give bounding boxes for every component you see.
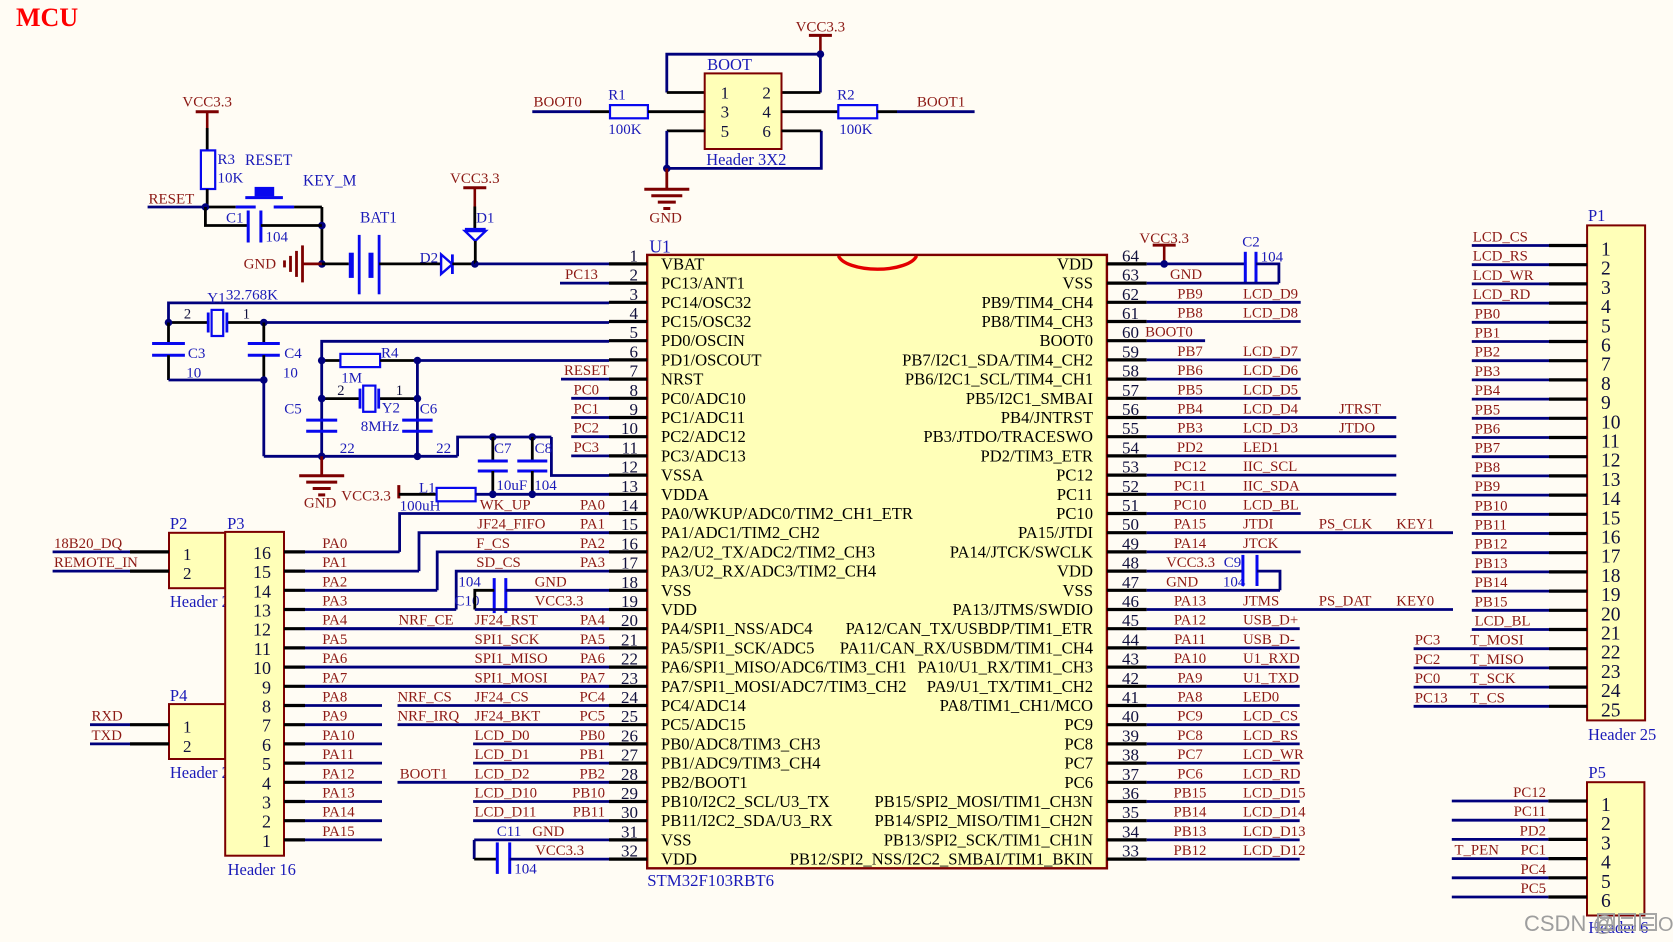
svg-text:PA8: PA8: [1178, 690, 1203, 706]
U1 right pin stubs numbers and names: [1107, 262, 1147, 265]
svg-text:GND: GND: [532, 824, 564, 840]
net SD_CS PA3 (pin17) with riser: [456, 571, 609, 609]
svg-text:VCC3.3: VCC3.3: [1166, 555, 1215, 571]
svg-text:PC12: PC12: [1174, 459, 1207, 475]
svg-text:PD2/TIM3_ETR: PD2/TIM3_ETR: [981, 446, 1094, 465]
svg-text:PC3: PC3: [1415, 633, 1441, 649]
wire BOOT vcc to pins 1 2: [667, 54, 821, 92]
svg-text:104: 104: [514, 862, 537, 878]
svg-text:R2: R2: [837, 88, 855, 104]
P5 pin 1 wire: [1452, 800, 1549, 803]
svg-text:PA12: PA12: [1174, 613, 1206, 629]
svg-text:PA11: PA11: [322, 747, 354, 763]
svg-text:PA10: PA10: [322, 728, 354, 744]
svg-text:PC14/OSC32: PC14/OSC32: [661, 293, 751, 312]
svg-text:2: 2: [1601, 259, 1611, 280]
svg-text:19: 19: [1601, 585, 1621, 606]
svg-text:SPI1_MOSI: SPI1_MOSI: [475, 670, 548, 686]
svg-text:GND: GND: [1166, 574, 1198, 590]
net BOOT1: [897, 110, 975, 113]
svg-text:PC5: PC5: [1521, 881, 1547, 897]
wire U1 pin22 row: [305, 666, 609, 669]
svg-text:C7: C7: [494, 441, 512, 457]
wire pin58 row right: [1147, 378, 1301, 381]
resistor R3: [201, 150, 215, 189]
svg-text:2: 2: [762, 84, 771, 103]
svg-text:Header 25: Header 25: [1588, 725, 1656, 744]
wire crystal bottom rail: [264, 455, 458, 458]
svg-text:PC4/ADC14: PC4/ADC14: [661, 696, 747, 715]
svg-text:LCD_D6: LCD_D6: [1243, 363, 1298, 379]
svg-text:10uF: 10uF: [496, 478, 527, 494]
svg-text:PD1/OSCOUT: PD1/OSCOUT: [661, 350, 762, 369]
svg-text:40: 40: [1122, 707, 1139, 726]
svg-text:RESET: RESET: [245, 152, 293, 169]
wire U1 pin21 row: [305, 647, 609, 650]
svg-text:PC2: PC2: [574, 421, 600, 437]
header P2 box: [169, 533, 225, 588]
svg-text:53: 53: [1122, 458, 1139, 477]
svg-text:PA0: PA0: [580, 498, 605, 514]
svg-text:LCD_D0: LCD_D0: [475, 728, 530, 744]
wire U1 pin29 row: [473, 800, 609, 803]
svg-text:PS_CLK: PS_CLK: [1319, 517, 1373, 533]
svg-text:PB8/TIM4_CH3: PB8/TIM4_CH3: [981, 312, 1093, 331]
svg-text:LCD_RS: LCD_RS: [1243, 728, 1298, 744]
svg-text:12: 12: [621, 458, 638, 477]
svg-text:PA8: PA8: [322, 690, 347, 706]
svg-text:5: 5: [721, 122, 730, 141]
svg-text:6: 6: [1601, 891, 1611, 912]
svg-text:10: 10: [283, 366, 298, 382]
svg-text:P2: P2: [170, 514, 187, 533]
svg-text:P3: P3: [227, 514, 244, 533]
IC notch arc: [839, 256, 917, 269]
svg-text:VCC3.3: VCC3.3: [535, 843, 584, 859]
svg-text:1: 1: [183, 545, 192, 564]
P1 pin 1 wire: [1472, 244, 1549, 247]
P1 pin 5 wire: [1472, 321, 1549, 324]
svg-text:24: 24: [621, 688, 639, 707]
svg-text:43: 43: [1122, 650, 1139, 669]
svg-text:LED0: LED0: [1243, 690, 1279, 706]
svg-text:VDD: VDD: [1057, 254, 1093, 273]
svg-text:27: 27: [621, 746, 639, 765]
svg-text:PA5: PA5: [322, 632, 347, 648]
svg-text:PC13/ANT1: PC13/ANT1: [661, 274, 745, 293]
net JF24_FIFO PA1 (pin15) with riser: [419, 533, 609, 571]
svg-text:SPI1_MISO: SPI1_MISO: [475, 651, 548, 667]
svg-text:PB9: PB9: [1177, 286, 1203, 302]
svg-text:JTDO: JTDO: [1339, 421, 1375, 437]
svg-text:1: 1: [630, 246, 639, 265]
svg-text:21: 21: [621, 630, 638, 649]
svg-text:PA6: PA6: [322, 651, 347, 667]
svg-text:11: 11: [1601, 432, 1620, 453]
svg-text:PB11/I2C2_SDA/U3_RX: PB11/I2C2_SDA/U3_RX: [661, 811, 833, 830]
svg-text:C8: C8: [535, 441, 553, 457]
power VCC3.3 (R3 top): [196, 110, 219, 113]
svg-text:23: 23: [1601, 662, 1621, 683]
wire pin56 row right: [1147, 416, 1397, 419]
net PC3 (pin11): [571, 454, 609, 457]
svg-text:PC1/ADC11: PC1/ADC11: [661, 408, 745, 427]
svg-text:10: 10: [621, 419, 638, 438]
svg-text:PB0: PB0: [580, 728, 606, 744]
svg-text:55: 55: [1122, 419, 1139, 438]
svg-text:PA15: PA15: [1174, 517, 1206, 533]
svg-text:C5: C5: [284, 402, 302, 418]
svg-text:9: 9: [1601, 393, 1611, 414]
wire pin34 row right: [1147, 839, 1300, 842]
svg-text:F_CS: F_CS: [476, 536, 510, 552]
svg-text:PC10: PC10: [1056, 504, 1093, 523]
svg-text:1: 1: [1601, 795, 1611, 816]
svg-text:PC0/ADC10: PC0/ADC10: [661, 389, 746, 408]
svg-text:PC15/OSC32: PC15/OSC32: [661, 312, 751, 331]
svg-text:22: 22: [436, 441, 451, 457]
svg-text:37: 37: [1122, 765, 1140, 784]
svg-text:1: 1: [262, 831, 271, 851]
svg-text:14: 14: [253, 581, 271, 601]
wire pin45 row right: [1147, 627, 1300, 630]
svg-text:JTDI: JTDI: [1243, 517, 1273, 533]
P1 pin 24 wire: [1414, 686, 1549, 689]
svg-text:PA6: PA6: [580, 651, 605, 667]
P1 pin 21 wire: [1472, 628, 1549, 631]
svg-text:BOOT1: BOOT1: [400, 766, 448, 782]
ground below crystals: [320, 456, 323, 475]
P1 pin 11 wire: [1472, 436, 1549, 439]
svg-text:PB12: PB12: [1174, 843, 1207, 859]
svg-text:JF24_CS: JF24_CS: [475, 690, 529, 706]
svg-text:PB15/SPI2_MOSI/TIM1_CH3N: PB15/SPI2_MOSI/TIM1_CH3N: [874, 792, 1093, 811]
svg-text:1: 1: [183, 718, 192, 737]
svg-text:8: 8: [630, 381, 639, 400]
svg-text:GND: GND: [649, 211, 682, 227]
svg-text:46: 46: [1122, 592, 1139, 611]
svg-text:VSS: VSS: [661, 830, 691, 849]
svg-text:7: 7: [630, 362, 639, 381]
power VCC3.3 (pin64): [1153, 244, 1176, 247]
svg-text:PC6: PC6: [1064, 773, 1093, 792]
wire U1 pin5 (PD0/OSCIN): [322, 341, 609, 456]
svg-text:3: 3: [1601, 833, 1611, 854]
svg-text:42: 42: [1122, 669, 1139, 688]
svg-text:5: 5: [630, 323, 639, 342]
svg-text:O: O: [1658, 914, 1673, 936]
svg-text:8MHz: 8MHz: [361, 419, 400, 435]
svg-text:PB13: PB13: [1174, 824, 1207, 840]
svg-text:PB0: PB0: [1475, 306, 1501, 322]
svg-text:VCC3.3: VCC3.3: [341, 489, 391, 505]
svg-text:30: 30: [621, 803, 638, 822]
wire pin59 row right: [1147, 358, 1301, 361]
svg-text:PC8: PC8: [1064, 734, 1093, 753]
wire U1 pin25 row: [398, 723, 610, 726]
svg-text:LED1: LED1: [1243, 440, 1279, 456]
svg-text:32: 32: [621, 842, 638, 861]
svg-text:C2: C2: [1242, 235, 1260, 251]
svg-text:Header 2: Header 2: [170, 763, 230, 782]
svg-text:LCD_D1: LCD_D1: [475, 747, 530, 763]
power VCC3.3 (D1 top): [463, 186, 486, 189]
svg-text:LCD_D15: LCD_D15: [1243, 786, 1305, 802]
P5 pin 3 wire: [1452, 838, 1549, 841]
svg-text:PA0: PA0: [322, 536, 347, 552]
capacitor C1: [205, 207, 248, 226]
net TXD: [90, 743, 130, 746]
header P4 box: [169, 704, 225, 759]
svg-text:54: 54: [1122, 438, 1140, 457]
svg-text:C11: C11: [497, 824, 521, 840]
svg-text:BOOT1: BOOT1: [917, 95, 965, 111]
svg-text:2: 2: [630, 266, 639, 285]
svg-text:PB2/BOOT1: PB2/BOOT1: [661, 773, 748, 792]
svg-text:48: 48: [1122, 554, 1139, 573]
svg-text:PB1: PB1: [1475, 326, 1501, 342]
P1 pin 23 wire: [1414, 667, 1549, 670]
svg-text:5: 5: [262, 754, 271, 774]
svg-text:3: 3: [630, 285, 639, 304]
svg-text:PC4: PC4: [580, 690, 606, 706]
svg-text:PB5: PB5: [1475, 402, 1501, 418]
svg-text:JF24_BKT: JF24_BKT: [475, 709, 541, 725]
svg-text:16: 16: [621, 534, 638, 553]
svg-text:PA8/TIM1_CH1/MCO: PA8/TIM1_CH1/MCO: [940, 696, 1093, 715]
svg-text:3: 3: [1601, 278, 1611, 299]
svg-text:4: 4: [762, 103, 771, 122]
svg-text:PA4: PA4: [322, 613, 348, 629]
wire BOOT pins 5 6 to ground: [667, 129, 705, 132]
svg-text:Y1: Y1: [207, 291, 225, 307]
svg-text:PC4: PC4: [1521, 862, 1547, 878]
wire U1 pin3 (PC14/OSC32): [169, 303, 610, 323]
svg-text:T_MISO: T_MISO: [1470, 652, 1524, 668]
svg-text:RXD: RXD: [92, 709, 124, 725]
svg-text:51: 51: [1122, 496, 1139, 515]
svg-text:PC5: PC5: [580, 709, 606, 725]
P1 pin 4 wire: [1472, 302, 1549, 305]
svg-text:LCD_CS: LCD_CS: [1243, 709, 1298, 725]
svg-text:PB8: PB8: [1177, 306, 1203, 322]
svg-text:22: 22: [621, 650, 638, 669]
svg-text:U1_RXD: U1_RXD: [1243, 651, 1300, 667]
svg-text:57: 57: [1122, 381, 1140, 400]
svg-text:TXD: TXD: [92, 728, 123, 744]
svg-text:VCC3.3: VCC3.3: [182, 95, 232, 111]
svg-text:VDD: VDD: [661, 600, 697, 619]
svg-text:PB12: PB12: [1475, 537, 1508, 553]
svg-text:45: 45: [1122, 611, 1139, 630]
svg-text:PB4/JNTRST: PB4/JNTRST: [1001, 408, 1093, 427]
svg-text:29: 29: [621, 784, 638, 803]
svg-text:JF24_RST: JF24_RST: [475, 613, 538, 629]
svg-text:LCD_BL: LCD_BL: [1475, 614, 1531, 630]
wire pin39 row right: [1147, 743, 1300, 746]
wire pin49 row right: [1147, 551, 1301, 554]
svg-text:PB2: PB2: [1475, 345, 1501, 361]
svg-text:PB1/ADC9/TIM3_CH4: PB1/ADC9/TIM3_CH4: [661, 754, 821, 773]
svg-text:64: 64: [1122, 246, 1140, 265]
net 18B20_DQ: [53, 551, 130, 554]
P1 pin 15 wire: [1472, 513, 1549, 516]
svg-text:49: 49: [1122, 534, 1139, 553]
svg-text:P1: P1: [1588, 206, 1605, 225]
wire U1 pin24 row: [398, 704, 610, 707]
svg-text:59: 59: [1122, 342, 1139, 361]
svg-text:PB14: PB14: [1475, 575, 1508, 591]
svg-text:PB14: PB14: [1174, 805, 1207, 821]
svg-text:PA9/U1_TX/TIM1_CH2: PA9/U1_TX/TIM1_CH2: [927, 677, 1093, 696]
wire U1 pin31 VSS: [474, 839, 609, 842]
svg-text:T_PEN: T_PEN: [1455, 843, 1500, 859]
wire pin33 row right: [1147, 858, 1300, 861]
svg-text:13: 13: [253, 601, 271, 621]
svg-text:22: 22: [340, 441, 355, 457]
net PC2 (pin10): [571, 435, 609, 438]
svg-text:LCD_CS: LCD_CS: [1473, 230, 1528, 246]
wire pin46 row right: [1147, 608, 1453, 611]
svg-text:4: 4: [1601, 853, 1611, 874]
svg-text:IIC_SDA: IIC_SDA: [1243, 478, 1300, 494]
svg-text:T_MOSI: T_MOSI: [1470, 633, 1524, 649]
svg-text:1: 1: [243, 307, 250, 323]
svg-text:PB6: PB6: [1475, 422, 1501, 438]
svg-text:PB1: PB1: [580, 747, 606, 763]
svg-text:PB3/JTDO/TRACESWO: PB3/JTDO/TRACESWO: [923, 427, 1093, 446]
svg-text:BOOT0: BOOT0: [1040, 331, 1093, 350]
net REMOTE_IN: [53, 570, 130, 573]
svg-text:LCD_D11: LCD_D11: [475, 805, 537, 821]
svg-text:VSS: VSS: [1063, 274, 1093, 293]
svg-text:C3: C3: [188, 346, 206, 362]
svg-text:LCD_RD: LCD_RD: [1243, 766, 1301, 782]
U1 left pin stubs numbers and names: [609, 262, 647, 265]
svg-text:JTRST: JTRST: [1339, 402, 1381, 418]
svg-text:PC2/ADC12: PC2/ADC12: [661, 427, 746, 446]
net RXD: [90, 723, 130, 726]
svg-text:VSSA: VSSA: [661, 466, 703, 485]
svg-text:WK_UP: WK_UP: [480, 498, 531, 514]
P5 pin 5 wire: [1452, 876, 1549, 879]
wire pin50 row right: [1147, 531, 1453, 534]
svg-text:KEY1: KEY1: [1396, 517, 1434, 533]
svg-text:11: 11: [254, 639, 271, 659]
svg-text:47: 47: [1122, 573, 1140, 592]
svg-text:10: 10: [1601, 412, 1621, 433]
P1 pin 14 wire: [1472, 494, 1549, 497]
svg-text:26: 26: [621, 726, 638, 745]
svg-text:LCD_D9: LCD_D9: [1243, 286, 1298, 302]
svg-text:PC5/ADC15: PC5/ADC15: [661, 715, 746, 734]
wire U1 pin18 VSS: [506, 589, 609, 592]
net PC0 (pin8): [571, 397, 609, 400]
svg-text:PA12/CAN_TX/USBDP/TIM1_ETR: PA12/CAN_TX/USBDP/TIM1_ETR: [846, 619, 1094, 638]
svg-text:C6: C6: [420, 402, 438, 418]
svg-text:PC7: PC7: [1064, 754, 1093, 773]
wire rail to C7 C8 and U1 pin12 VSSA: [458, 437, 552, 456]
svg-text:NRF_IRQ: NRF_IRQ: [398, 709, 460, 725]
svg-text:BOOT: BOOT: [707, 55, 752, 74]
P1 pin 2 wire: [1472, 263, 1549, 266]
svg-text:60: 60: [1122, 323, 1139, 342]
svg-text:2: 2: [337, 383, 344, 399]
svg-text:16: 16: [1601, 528, 1621, 549]
P5 pin 4 wire: [1452, 857, 1549, 860]
P1 pin 3 wire: [1472, 282, 1549, 285]
svg-text:PA2/U2_TX/ADC2/TIM2_CH3: PA2/U2_TX/ADC2/TIM2_CH3: [661, 542, 875, 561]
wire pin55 row right: [1147, 435, 1397, 438]
svg-text:6: 6: [262, 735, 271, 755]
ground (BOOT): [665, 168, 668, 189]
svg-text:5: 5: [1601, 872, 1611, 893]
P1 pin 25 wire: [1414, 705, 1549, 708]
svg-text:PA6/SPI1_MISO/ADC6/TIM3_CH1: PA6/SPI1_MISO/ADC6/TIM3_CH1: [661, 658, 907, 677]
svg-text:D1: D1: [476, 211, 494, 227]
capacitor C3: [167, 323, 170, 344]
svg-text:100K: 100K: [608, 122, 642, 138]
svg-text:PB11: PB11: [573, 805, 605, 821]
svg-text:VBAT: VBAT: [661, 254, 704, 273]
svg-text:15: 15: [1601, 508, 1621, 529]
svg-text:R3: R3: [218, 152, 236, 168]
svg-text:LCD_RD: LCD_RD: [1473, 287, 1531, 303]
svg-text:8: 8: [262, 697, 271, 717]
svg-text:GND: GND: [244, 257, 277, 273]
wire U1 pin13 VDDA: [476, 493, 609, 496]
svg-text:SPI1_SCK: SPI1_SCK: [475, 632, 540, 648]
svg-text:2: 2: [183, 737, 192, 756]
net WK_UP PA0 (pin14) with riser: [400, 514, 609, 552]
svg-text:RESET: RESET: [564, 363, 609, 379]
wire pin54 row right: [1147, 454, 1397, 457]
svg-text:C9: C9: [1224, 555, 1242, 571]
svg-text:18: 18: [621, 573, 638, 592]
svg-text:61: 61: [1122, 304, 1139, 323]
P1 pin 8 wire: [1472, 378, 1549, 381]
svg-text:3: 3: [721, 103, 730, 122]
P1 pin 7 wire: [1472, 359, 1549, 362]
svg-text:28: 28: [621, 765, 638, 784]
svg-text:KEY_M: KEY_M: [303, 173, 357, 190]
svg-text:11: 11: [622, 438, 638, 457]
svg-text:24: 24: [1601, 681, 1621, 702]
wire U1 pin4 (PC15/OSC32): [264, 321, 609, 324]
svg-text:50: 50: [1122, 515, 1139, 534]
svg-text:14: 14: [1601, 489, 1621, 510]
svg-text:PB3: PB3: [1475, 364, 1501, 380]
svg-text:R1: R1: [608, 88, 626, 104]
svg-text:PA7/SPI1_MOSI/ADC7/TIM3_CH2: PA7/SPI1_MOSI/ADC7/TIM3_CH2: [661, 677, 907, 696]
svg-text:PC1: PC1: [574, 402, 600, 418]
svg-text:LCD_BL: LCD_BL: [1243, 498, 1299, 514]
P5 pin 2 wire: [1452, 819, 1549, 822]
svg-text:16: 16: [253, 543, 271, 563]
svg-text:PD2: PD2: [1177, 440, 1203, 456]
wire U1 pin20 row: [305, 627, 609, 630]
svg-text:23: 23: [621, 669, 638, 688]
svg-text:PC13: PC13: [565, 267, 598, 283]
net RESET (pin7): [561, 378, 609, 381]
svg-text:2: 2: [184, 307, 191, 323]
wire U1 pin26 row: [473, 743, 609, 746]
wire pin38 row right: [1147, 762, 1300, 765]
svg-text:1: 1: [721, 84, 730, 103]
wire key to C1 node: [294, 206, 322, 209]
svg-text:PA1: PA1: [322, 555, 347, 571]
svg-text:PA15: PA15: [322, 824, 354, 840]
